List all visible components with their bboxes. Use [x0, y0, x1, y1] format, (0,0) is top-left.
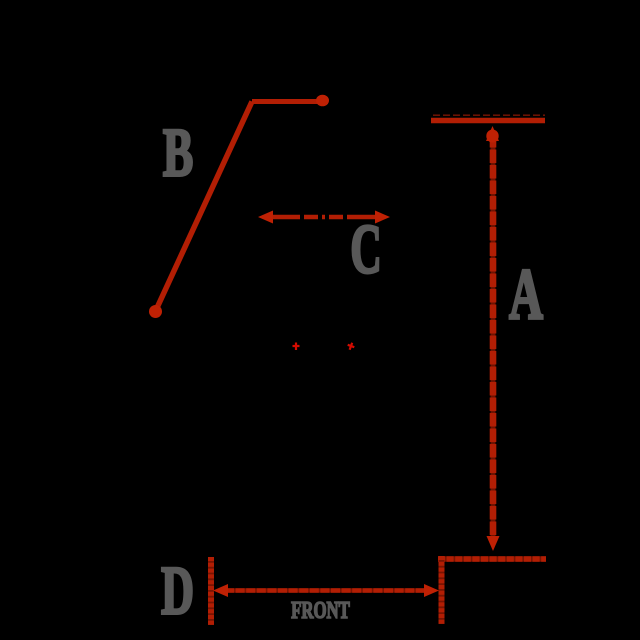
- svg-text:C: C: [350, 210, 381, 288]
- dimension line D: [225, 588, 425, 593]
- arrowhead D right: [424, 584, 439, 597]
- dimension line A vertical dashed: [490, 134, 497, 540]
- extension line bottom-left vertical underlay: [208, 557, 214, 625]
- dimension line A vertical underlay: [491, 134, 496, 540]
- extension line bottom-left vertical: [208, 557, 214, 625]
- extension line top (A): [431, 118, 545, 124]
- arrowhead A top: [486, 126, 499, 141]
- leader line B diagonal segment: [156, 102, 252, 311]
- svg-text:A: A: [509, 256, 543, 335]
- center mark left: [293, 343, 300, 351]
- dimension line C (dash-dot): [270, 215, 380, 220]
- arrowhead C right: [375, 211, 390, 224]
- extension line bottom-right horizontal (step): [438, 556, 546, 562]
- dimension line D underlay: [225, 588, 425, 593]
- leader line B end dot: [316, 95, 329, 107]
- extension line top (A) thin dashed overstroke: [433, 114, 545, 116]
- leader line B horizontal segment: [252, 99, 327, 104]
- center mark right: [346, 342, 355, 351]
- extension line bottom-right vertical underlay: [439, 556, 445, 624]
- svg-text:B: B: [163, 114, 193, 191]
- arrowhead C left: [258, 211, 273, 224]
- extension line bottom-right horizontal (step) underlay: [438, 556, 546, 562]
- svg-text:FRONT: FRONT: [291, 598, 350, 623]
- extension line bottom-right vertical: [439, 556, 445, 624]
- leader line B end blob: [149, 305, 162, 318]
- arrowhead D left: [213, 584, 228, 597]
- svg-text:D: D: [161, 552, 194, 629]
- arrowhead A bottom: [487, 536, 500, 551]
